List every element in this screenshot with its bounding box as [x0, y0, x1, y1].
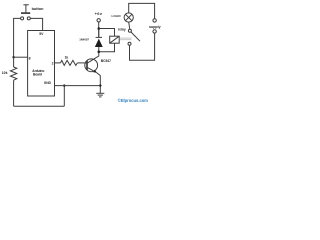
- wire pin2 to R2: [55, 62, 61, 64]
- push button S1: [21, 5, 31, 20]
- svg-text:8: 8: [29, 57, 31, 61]
- transistor Q1 BC547: [85, 58, 98, 73]
- wire up to gnd net: [63, 86, 65, 107]
- svg-text:1k: 1k: [65, 56, 69, 60]
- node junction emitter/gnd rail: [99, 84, 101, 86]
- wire resistor bottom down: [13, 80, 15, 106]
- node junction gnd rail: [63, 84, 65, 86]
- svg-text:Board: Board: [33, 72, 42, 76]
- wire lamp top rail to supply top: [129, 3, 155, 18]
- wire gnd pin to ground: [55, 85, 101, 87]
- svg-text:button: button: [32, 7, 44, 11]
- resistor R1 10k vertical zigzag: [10, 67, 16, 80]
- wire to pin 8: [14, 56, 28, 58]
- wire lamp bottom to contact: [129, 22, 130, 29]
- relay linkage: [120, 38, 132, 40]
- svg-text:©Elprocus.com: ©Elprocus.com: [118, 98, 148, 103]
- wire bottom rail: [14, 105, 65, 107]
- ground: [96, 93, 104, 97]
- terminal supply bottom: [153, 30, 156, 33]
- wire rail to resistor top: [13, 57, 15, 67]
- relay switch arm: [131, 32, 140, 41]
- svg-text:+6v: +6v: [95, 11, 103, 16]
- wire button right to 5V: [30, 18, 42, 30]
- terminal +6v: [97, 19, 100, 22]
- terminal supply top: [153, 19, 156, 22]
- node junction collector/diode/coil: [98, 50, 101, 53]
- wire +6v down to diode: [98, 22, 100, 37]
- wire collector up to node: [96, 52, 99, 58]
- svg-text:BC547: BC547: [101, 59, 111, 63]
- Arduino board U1: [28, 31, 55, 97]
- svg-text:10k: 10k: [2, 71, 8, 75]
- svg-text:1N4007: 1N4007: [79, 38, 89, 42]
- relay coil K1: [110, 36, 120, 43]
- svg-text:5V: 5V: [39, 32, 44, 36]
- lamp LOAD: [124, 13, 133, 22]
- diode D1 1N4007: [95, 30, 103, 50]
- wire coil bottom to node: [99, 43, 115, 52]
- relay switch contact bottom: [128, 42, 131, 45]
- svg-text:GND: GND: [44, 81, 52, 85]
- node junction +6v/relay branch: [98, 27, 101, 30]
- wire button left to left rail: [14, 18, 21, 56]
- svg-text:2: 2: [52, 61, 54, 65]
- relay switch contact top: [128, 29, 131, 32]
- wire node to relay coil top: [99, 29, 115, 37]
- wire contact bottom to supply bottom: [130, 33, 155, 60]
- svg-text:LOAD: LOAD: [112, 14, 122, 18]
- wire R2 to base: [77, 62, 87, 64]
- resistor R2 1k horizontal zigzag: [61, 60, 78, 65]
- svg-text:supply: supply: [149, 25, 161, 29]
- node junction pin8/resistor: [12, 56, 14, 58]
- wire emitter down: [97, 73, 101, 94]
- svg-text:relay: relay: [118, 27, 126, 31]
